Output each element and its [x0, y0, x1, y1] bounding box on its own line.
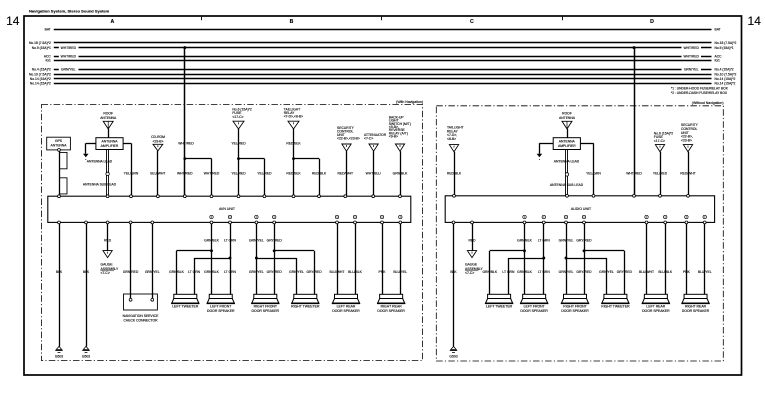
wire WHT/BLU — [373, 151, 375, 196]
svg-text:PNK: PNK — [379, 270, 387, 274]
chassis ground (antenna amplifier) — [83, 154, 89, 157]
svg-text:GRN/BLK: GRN/BLK — [204, 270, 219, 274]
column tick B/C — [381, 17, 383, 21]
navigation service check connector — [124, 294, 158, 310]
svg-text:LT GRN: LT GRN — [502, 270, 515, 274]
svg-text:No.14 (15A)*2: No.14 (15A)*2 — [30, 82, 51, 86]
wire YEL/RED from fuse — [238, 129, 240, 196]
svg-text:GRN/RED: GRN/RED — [123, 270, 139, 274]
wire WHT/RED tap from No.9 bus to AVN (with nav) — [184, 48, 186, 197]
svg-text:LT GRN: LT GRN — [538, 270, 551, 274]
svg-text:GRY/RED: GRY/RED — [267, 270, 283, 274]
bus wire No.10 — [54, 74, 712, 76]
svg-text:GRY/RED: GRY/RED — [576, 270, 592, 274]
right rear door speaker (without nav) — [684, 294, 707, 298]
with navigation boundary box — [42, 105, 423, 361]
svg-text:GRN/YEL: GRN/YEL — [61, 68, 76, 72]
AVN unit box — [48, 196, 411, 222]
right front door speaker (with nav) — [254, 294, 277, 298]
wire GRN/YEL AVN pin to right front speaker and tweeter jog — [256, 222, 258, 294]
svg-text:(With Navigation): (With Navigation) — [396, 100, 423, 104]
svg-text:IG1: IG1 — [715, 59, 720, 63]
svg-text:YEL/GRN: YEL/GRN — [586, 172, 601, 176]
svg-text:LT GRN: LT GRN — [224, 239, 237, 243]
wire PNK to right rear speaker — [382, 222, 384, 294]
wire RED/WHT to audio unit — [688, 152, 690, 196]
svg-text:RED: RED — [104, 239, 112, 243]
svg-text:YEL/RED: YEL/RED — [653, 172, 668, 176]
svg-text:GRN/BLK: GRN/BLK — [517, 239, 532, 243]
svg-text:WHT/RED: WHT/RED — [626, 172, 642, 176]
svg-text:<29-B>: <29-B> — [153, 139, 164, 143]
svg-text:No.9 (15A)*1: No.9 (15A)*1 — [715, 46, 734, 50]
svg-text:GRY/RED: GRY/RED — [576, 239, 592, 243]
wire LT GRN audio pin to left front speaker and tweeter jog — [543, 222, 545, 294]
svg-text:ANTENNA: ANTENNA — [559, 139, 576, 143]
svg-text:GRN/BLK: GRN/BLK — [482, 270, 497, 274]
wire GRY/RED AVN pin to right front speaker and tweeter jog — [274, 222, 276, 294]
svg-text:A: A — [111, 19, 115, 25]
svg-text:DOOR SPEAKER: DOOR SPEAKER — [682, 309, 710, 313]
left rear door speaker (with nav) — [335, 294, 358, 298]
svg-text:ANTENNA LEAD: ANTENNA LEAD — [554, 159, 580, 163]
svg-text:No.4 (15A)*2: No.4 (15A)*2 — [32, 68, 51, 72]
svg-text:ANTENNA: ANTENNA — [102, 139, 119, 143]
chassis ground (antenna amplifier, without nav) — [537, 154, 543, 157]
wire BLU/BLK to left rear speaker — [355, 222, 357, 294]
svg-text:AMPLIFIER: AMPLIFIER — [101, 144, 119, 148]
svg-text:LT GRN: LT GRN — [538, 239, 551, 243]
wire GRN/BLK audio pin to left front speaker and tweeter jog — [524, 222, 526, 294]
right front door speaker (without nav) — [564, 294, 587, 298]
svg-text:<22-B>,<23-B>: <22-B>,<23-B> — [337, 136, 360, 140]
GPS antenna — [47, 137, 71, 150]
svg-text:ANTENNA: ANTENNA — [559, 116, 576, 120]
svg-text:ANTENNA: ANTENNA — [100, 116, 117, 120]
svg-text:DOOR SPEAKER: DOOR SPEAKER — [561, 309, 589, 313]
antenna lead connector — [565, 173, 568, 176]
wire GRN/BLK — [400, 151, 402, 196]
svg-text:GRN/YEL: GRN/YEL — [289, 270, 304, 274]
svg-text:C: C — [470, 19, 474, 25]
svg-text:YEL/RED: YEL/RED — [257, 172, 272, 176]
bus wire ACC — [54, 56, 59, 58]
AVN unit bottom pins — [58, 221, 61, 224]
svg-text:LT GRN: LT GRN — [224, 270, 237, 274]
ground G503 (1) — [56, 346, 61, 349]
wire RED/WHT — [346, 151, 348, 196]
svg-text:GRN/BLK: GRN/BLK — [393, 172, 408, 176]
svg-text:CHECK CONNECTOR: CHECK CONNECTOR — [123, 319, 158, 323]
svg-text:AUDIO UNIT: AUDIO UNIT — [571, 207, 592, 211]
svg-text:Navigation System, Stereo Soun: Navigation System, Stereo Sound System — [29, 8, 110, 13]
svg-text:AMPLIFIER: AMPLIFIER — [558, 144, 576, 148]
wire RED/BLK to audio unit — [454, 152, 456, 196]
antenna amplifier (without nav) — [553, 138, 580, 150]
wire GPS antenna shielded lead — [59, 150, 61, 196]
svg-text:GRN/YEL: GRN/YEL — [684, 68, 699, 72]
svg-text:GRN/YEL: GRN/YEL — [559, 239, 574, 243]
junction on No.9 bus left — [183, 46, 186, 49]
bus wire No.18 — [54, 42, 712, 44]
wire GRN/YEL audio pin to right front speaker and tweeter jog — [566, 222, 568, 294]
svg-text:14: 14 — [6, 14, 20, 28]
svg-text:BLK: BLK — [56, 270, 63, 274]
wire BLU/YEL to right rear speaker (without nav) — [704, 222, 706, 294]
bus wire BAT — [54, 29, 712, 31]
svg-text:DOOR SPEAKER: DOOR SPEAKER — [207, 309, 235, 313]
column tick A/B — [201, 17, 203, 21]
antenna lead coax (without nav) — [565, 150, 567, 196]
wire WHT/RED tap from No.9 bus to audio unit (without nav) — [634, 48, 636, 196]
svg-text:No.18 (7.5A)*2: No.18 (7.5A)*2 — [715, 41, 737, 45]
svg-text:BLU/YEL: BLU/YEL — [393, 270, 407, 274]
svg-text:No.10 (7.5A)*2: No.10 (7.5A)*2 — [29, 72, 51, 76]
audio unit speaker pin numbers — [523, 215, 526, 218]
svg-text:GRN/YEL: GRN/YEL — [249, 239, 264, 243]
wire RED/BLK jog — [294, 158, 320, 160]
wire GRY/RED audio pin to right front speaker and tweeter jog — [584, 222, 586, 294]
svg-text:GRY/RED: GRY/RED — [307, 270, 323, 274]
svg-text:No.9 (15A)*1: No.9 (15A)*1 — [32, 46, 51, 50]
audio unit top pins — [453, 194, 456, 197]
wire RED to gauge assembly (without nav) — [472, 222, 474, 250]
wire YEL/GRN from amplifier to AVN — [123, 143, 131, 145]
svg-text:DOOR SPEAKER: DOOR SPEAKER — [520, 309, 548, 313]
wire RED/BLK from taillight relay — [293, 129, 295, 196]
svg-text:WHT/RED: WHT/RED — [61, 55, 77, 59]
bus wire No.14b — [54, 83, 712, 85]
svg-text:BLK: BLK — [83, 270, 90, 274]
wire GRN/RED — [130, 222, 132, 299]
gauge assembly connector (with nav) — [103, 251, 112, 258]
bus wire IG1 — [54, 60, 712, 62]
svg-text:<7-D>,<8-B>: <7-D>,<8-B> — [284, 115, 303, 119]
svg-text:No.18 (7.5A)*2: No.18 (7.5A)*2 — [29, 41, 51, 45]
wire BLK to ground (without nav) — [453, 222, 455, 346]
svg-text:BAT: BAT — [45, 28, 51, 32]
wire antenna feed — [567, 129, 569, 138]
svg-text:GRN/YEL: GRN/YEL — [559, 270, 574, 274]
svg-text:<7-C>: <7-C> — [465, 271, 474, 275]
svg-text:YEL/RED: YEL/RED — [231, 172, 246, 176]
svg-text:<8-B>: <8-B> — [447, 137, 456, 141]
svg-text:B: B — [290, 19, 294, 25]
svg-text:BLU/BLK: BLU/BLK — [658, 270, 673, 274]
svg-text:ANTENNA SUB LEAD: ANTENNA SUB LEAD — [550, 183, 584, 187]
svg-text:DOOR SPEAKER: DOOR SPEAKER — [377, 309, 405, 313]
svg-text:WHT/RED: WHT/RED — [178, 142, 194, 146]
left tweeter (without nav) — [488, 294, 511, 298]
svg-text:No.4 (15A)*2: No.4 (15A)*2 — [715, 68, 734, 72]
svg-text:BLU/WHT: BLU/WHT — [639, 270, 654, 274]
svg-text:G503: G503 — [82, 354, 90, 358]
svg-text:PNK: PNK — [683, 270, 691, 274]
AVN unit top pins — [58, 195, 61, 198]
svg-text:DOOR SPEAKER: DOOR SPEAKER — [252, 309, 280, 313]
svg-text:<17-C>: <17-C> — [654, 139, 665, 143]
wire YEL/RED jog — [239, 158, 265, 160]
svg-text:GRN/YEL: GRN/YEL — [145, 270, 160, 274]
wire BLU/BLK to left rear speaker (without nav) — [665, 222, 667, 294]
bus wire No.9 — [54, 47, 59, 49]
svg-text:ROOF: ROOF — [562, 111, 572, 115]
svg-text:No.14 (15A)*2: No.14 (15A)*2 — [30, 77, 51, 81]
wire BLU/WHT to left rear speaker — [337, 222, 339, 294]
svg-text:RED: RED — [468, 239, 476, 243]
wire LT GRN AVN pin to left front speaker and tweeter jog — [230, 222, 232, 294]
audio unit box — [445, 196, 714, 223]
bus wire No.14a — [54, 78, 712, 80]
wire antenna feed — [108, 129, 110, 138]
wire BLK to ground 2 — [86, 222, 88, 346]
svg-text:GRY/RED: GRY/RED — [617, 270, 633, 274]
svg-text:GRN/YEL: GRN/YEL — [249, 270, 264, 274]
wire GRN/BLK AVN pin to left front speaker and tweeter jog — [211, 222, 213, 294]
column tick C/D — [562, 17, 564, 21]
wire BLU/YEL to right rear speaker — [400, 222, 402, 294]
wire amplifier ground stub — [86, 143, 96, 145]
svg-text:BLU/WHT: BLU/WHT — [150, 172, 165, 176]
svg-text:ANTENNA LEAD: ANTENNA LEAD — [87, 159, 113, 163]
svg-text:No.10 (7.5A)*2: No.10 (7.5A)*2 — [715, 72, 737, 76]
left tweeter (with nav) — [174, 294, 197, 298]
right tweeter (with nav) — [294, 294, 317, 298]
svg-text:<9-B>: <9-B> — [389, 135, 398, 139]
svg-text:GRN/BLK: GRN/BLK — [517, 270, 532, 274]
svg-text:G503: G503 — [55, 354, 63, 358]
wire RED to gauge assembly — [107, 222, 109, 250]
left rear door speaker (without nav) — [644, 294, 667, 298]
left front door speaker (with nav) — [209, 294, 232, 298]
junction on No.9 bus right — [633, 46, 636, 49]
svg-text:LEFT TWEETER: LEFT TWEETER — [172, 305, 199, 309]
svg-text:WHT/RED: WHT/RED — [177, 172, 193, 176]
svg-text:BLU/YEL: BLU/YEL — [698, 270, 712, 274]
svg-text:RED/BLK: RED/BLK — [286, 172, 301, 176]
svg-text:<23-B>: <23-B> — [681, 138, 692, 142]
svg-text:GRN/BLK: GRN/BLK — [204, 239, 219, 243]
svg-text:No.14 (15A)*2: No.14 (15A)*2 — [715, 82, 736, 86]
wire BLK to ground 1 — [59, 222, 61, 346]
svg-text:WHT/RED: WHT/RED — [61, 46, 77, 50]
wire GRN/YEL — [152, 222, 154, 299]
svg-text:WHT/RED: WHT/RED — [684, 46, 700, 50]
svg-text:14: 14 — [748, 14, 762, 28]
wire YEL/GRN from amplifier to audio unit — [580, 143, 593, 145]
antenna lead coax (with nav) — [106, 150, 108, 197]
svg-text:<17-C>: <17-C> — [232, 115, 243, 119]
svg-text:LEFT TWEETER: LEFT TWEETER — [486, 305, 513, 309]
wire BLU/WHT from CD-ROM to AVN — [157, 151, 159, 196]
svg-text:BLK: BLK — [450, 270, 457, 274]
wire YEL/RED to audio unit — [660, 152, 662, 196]
svg-text:RED/BLK: RED/BLK — [447, 172, 462, 176]
bus wire No.4 — [54, 69, 59, 71]
svg-text:RED/WHT: RED/WHT — [680, 172, 696, 176]
svg-text:WHT/RED: WHT/RED — [204, 172, 220, 176]
svg-text:ROOF: ROOF — [103, 111, 113, 115]
audio unit bottom pins — [452, 221, 455, 224]
svg-text:WHT/BLU: WHT/BLU — [366, 172, 382, 176]
svg-text:AVN UNIT: AVN UNIT — [219, 207, 236, 211]
antenna lead connector — [106, 172, 109, 175]
svg-text:ANTENNA SUB LEAD: ANTENNA SUB LEAD — [83, 183, 117, 187]
svg-text:D: D — [650, 19, 654, 25]
gauge assembly connector (without nav) — [467, 251, 476, 258]
svg-text:GRN/BLK: GRN/BLK — [169, 270, 184, 274]
svg-text:IG1: IG1 — [45, 59, 50, 63]
svg-text:NAVIGATION SERVICE: NAVIGATION SERVICE — [123, 314, 159, 318]
svg-text:YEL/GRN: YEL/GRN — [124, 172, 139, 176]
AVN speaker pin numbers — [210, 215, 213, 218]
svg-text:GPS: GPS — [55, 139, 63, 143]
right tweeter (without nav) — [604, 294, 627, 298]
svg-text:RED/BLK: RED/BLK — [286, 142, 301, 146]
svg-text:RIGHT TWEETER: RIGHT TWEETER — [601, 305, 630, 309]
wire WHT/RED jog to second AVN pin — [185, 158, 212, 160]
svg-text:LT GRN: LT GRN — [188, 270, 201, 274]
svg-text:*2 : UNDER-DASH FUSE/RELAY BOX: *2 : UNDER-DASH FUSE/RELAY BOX — [671, 91, 728, 95]
svg-text:BLU/BLK: BLU/BLK — [348, 270, 363, 274]
antenna amplifier (with nav) — [96, 138, 123, 150]
svg-text:(Without Navigation): (Without Navigation) — [692, 101, 724, 105]
svg-text:G503: G503 — [449, 354, 457, 358]
wire BLU/WHT to left rear speaker (without nav) — [646, 222, 648, 294]
right rear door speaker (with nav) — [380, 294, 403, 298]
left front door speaker (without nav) — [523, 294, 546, 298]
svg-text:ANTENNA: ANTENNA — [51, 144, 68, 148]
svg-text:GRY/RED: GRY/RED — [267, 239, 283, 243]
svg-text:BLU/WHT: BLU/WHT — [329, 270, 344, 274]
svg-text:WHT/RED: WHT/RED — [684, 55, 700, 59]
svg-text:No.14 (15A)*2: No.14 (15A)*2 — [715, 77, 736, 81]
ground G503 (2) — [83, 346, 88, 349]
svg-text:<7-C>: <7-C> — [364, 137, 373, 141]
wire amplifier ground stub — [539, 143, 553, 145]
svg-text:DOOR SPEAKER: DOOR SPEAKER — [642, 309, 670, 313]
svg-text:YEL/RED: YEL/RED — [231, 142, 246, 146]
svg-text:DOOR SPEAKER: DOOR SPEAKER — [332, 309, 360, 313]
svg-text:<7-C>: <7-C> — [101, 271, 110, 275]
wire PNK to right rear speaker (without nav) — [686, 222, 688, 294]
svg-text:RIGHT TWEETER: RIGHT TWEETER — [291, 305, 320, 309]
without navigation boundary box — [436, 106, 723, 361]
svg-text:BAT: BAT — [715, 28, 721, 32]
ground G503 (without nav) — [451, 346, 456, 349]
svg-text:GRN/YEL: GRN/YEL — [599, 270, 614, 274]
svg-text:RED/WHT: RED/WHT — [337, 172, 353, 176]
svg-text:RED/BLK: RED/BLK — [312, 172, 327, 176]
